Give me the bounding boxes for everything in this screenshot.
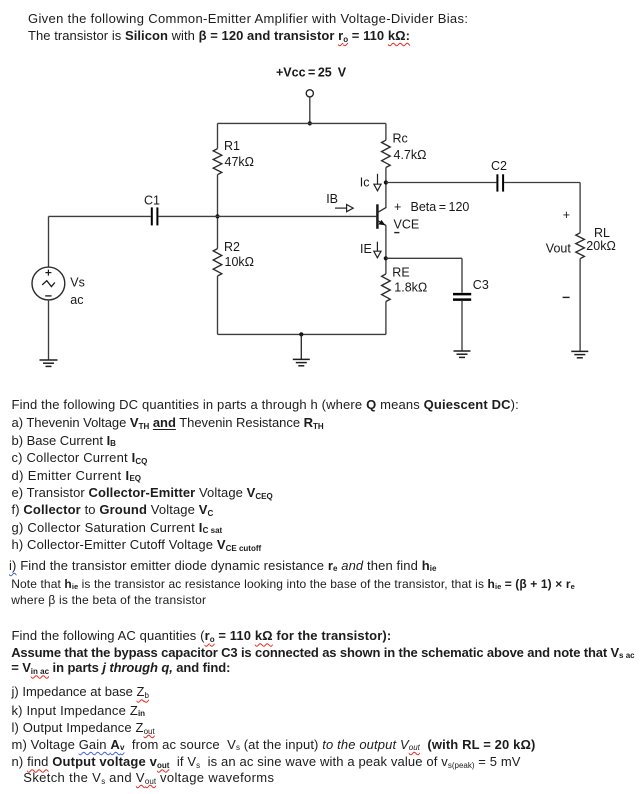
label Vs ac — [70, 276, 85, 308]
node collector junction dot — [384, 180, 388, 184]
resistor RL — [576, 226, 616, 259]
wire RL rail upper — [579, 183, 581, 233]
node Vcc junction dot — [308, 121, 312, 125]
source Vs — [32, 216, 85, 359]
resistor R1 — [213, 139, 254, 175]
node emitter junction dot — [384, 256, 388, 260]
svg-text:+Vcc = 25 V: +Vcc = 25 V — [276, 65, 347, 79]
wire Vs bottom — [48, 300, 50, 360]
collector diagonal — [377, 207, 386, 212]
node +Vcc label — [276, 65, 347, 79]
emitter diagonal — [377, 220, 386, 225]
wire collector rail to transistor — [385, 168, 387, 209]
wire collector rail upper — [385, 123, 387, 140]
transistor Q1 — [377, 204, 386, 229]
current arrow IE — [360, 242, 381, 258]
ground (bottom middle) — [293, 359, 310, 365]
wire emitter rail — [385, 226, 387, 274]
current arrow Ic — [360, 174, 381, 191]
wire ground stem (bottom) — [300, 334, 302, 359]
label Vout — [546, 242, 572, 256]
svg-text:Beta = 120: Beta = 120 — [411, 200, 470, 214]
Vcc terminal circle — [306, 90, 313, 97]
label - (output) — [563, 296, 570, 298]
label VCE with plus/minus — [394, 200, 470, 231]
ground (C3) — [454, 351, 471, 357]
wire Vcc stem — [309, 97, 311, 124]
ground (Vs) — [40, 360, 58, 366]
base bar — [376, 204, 379, 229]
svg-text:10kΩ: 10kΩ — [225, 255, 255, 269]
svg-text:RE: RE — [392, 265, 409, 279]
svg-text:+: + — [394, 200, 401, 214]
svg-text:Vout: Vout — [546, 242, 572, 256]
resistor RE — [382, 265, 428, 301]
plus mark — [45, 270, 51, 276]
svg-text:C3: C3 — [473, 278, 489, 292]
wire C3 bottom — [461, 301, 463, 351]
current arrow IB — [326, 192, 353, 212]
svg-text:C2: C2 — [491, 159, 507, 173]
svg-text:20kΩ: 20kΩ — [586, 239, 616, 253]
capacitor C2 — [491, 159, 507, 191]
wire C3 top — [461, 258, 463, 292]
svg-text:ac: ac — [70, 293, 83, 307]
wire base (mid) left of C1 — [49, 215, 151, 217]
wire left rail upper — [217, 123, 219, 148]
label + (output) — [563, 208, 570, 222]
svg-text:R2: R2 — [224, 240, 240, 254]
sine mark — [42, 281, 55, 287]
ground (RL) — [571, 351, 588, 357]
capacitor C1 — [144, 193, 160, 225]
svg-text:VCE: VCE — [394, 217, 420, 231]
svg-text:Ic: Ic — [360, 176, 370, 190]
wire C2 to RL corner — [504, 182, 580, 184]
resistor Rc — [382, 131, 427, 167]
wire left rail lower — [217, 276, 219, 334]
wire emitter to C3 — [386, 257, 462, 259]
svg-text:4.7kΩ: 4.7kΩ — [394, 148, 427, 162]
wire RE bottom — [385, 302, 387, 335]
wire left rail middle — [217, 175, 219, 249]
svg-text:IE: IE — [360, 242, 372, 256]
wire top rail — [218, 122, 386, 124]
svg-text:C1: C1 — [144, 193, 160, 207]
wire Vs top — [48, 216, 50, 267]
node bottom junction dot — [299, 332, 303, 336]
svg-text:1.8kΩ: 1.8kΩ — [394, 281, 427, 295]
svg-text:Rc: Rc — [393, 131, 408, 145]
svg-text:IB: IB — [326, 192, 338, 206]
capacitor C3 — [453, 278, 489, 300]
svg-text:Vs: Vs — [70, 276, 85, 290]
svg-text:R1: R1 — [224, 139, 240, 153]
svg-text:47kΩ: 47kΩ — [225, 155, 255, 169]
svg-text:+: + — [563, 208, 570, 222]
wire bottom rail — [218, 333, 386, 335]
resistor R2 — [213, 240, 254, 276]
wire RL rail lower — [579, 259, 581, 352]
wire collector to C2 — [386, 182, 497, 184]
minus mark — [45, 295, 51, 297]
emitter arrowhead — [378, 220, 385, 225]
wire base (mid) right of C1 — [158, 215, 376, 217]
node base junction dot — [215, 214, 219, 218]
